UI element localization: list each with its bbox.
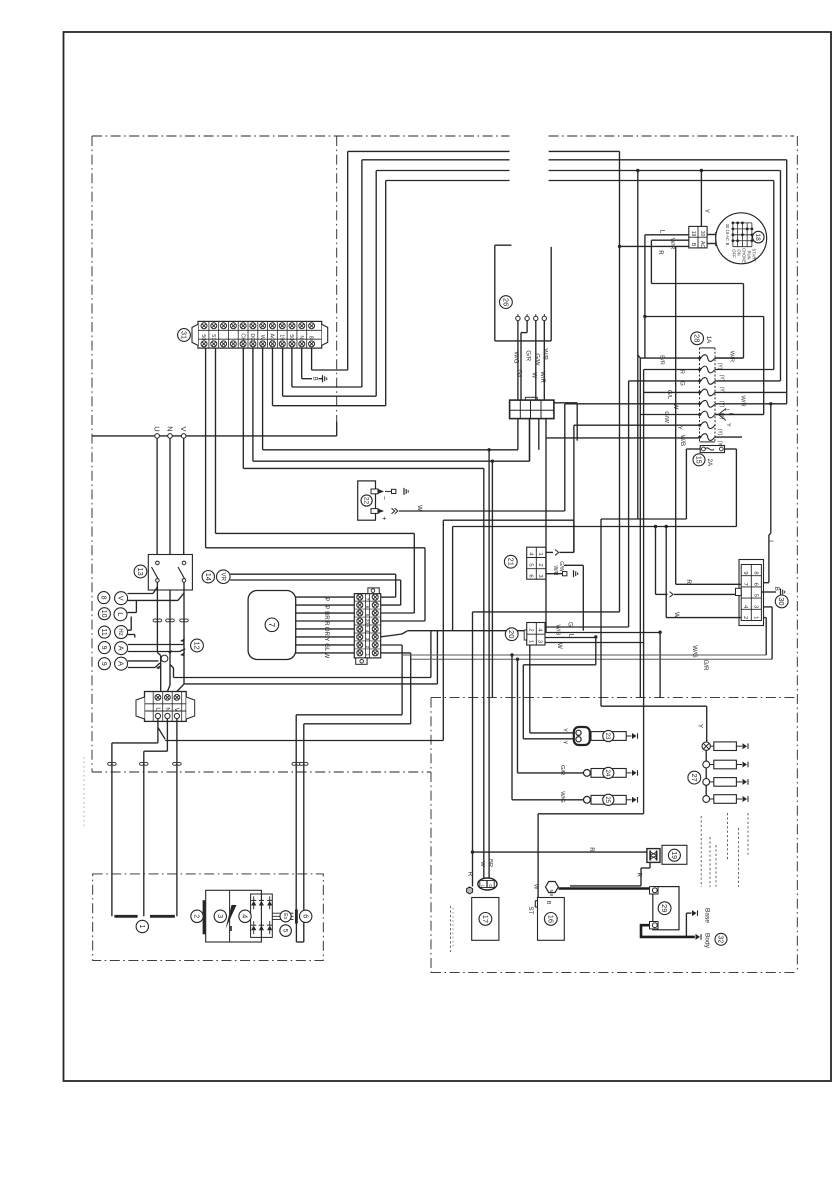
svg-text:3: 3	[752, 605, 758, 608]
svg-text:2: 2	[193, 914, 202, 918]
wire Hz lead	[128, 634, 135, 636]
svg-text:(Y): (Y)	[718, 413, 724, 420]
rectifier 4 box	[251, 894, 273, 937]
wire BR branch down	[488, 450, 490, 878]
svg-text:L: L	[767, 540, 774, 544]
wire 26 W/B	[543, 321, 545, 401]
thick cable 16 to battery	[559, 887, 650, 890]
boundary box A left edge	[91, 136, 93, 772]
svg-text:15: 15	[695, 456, 702, 464]
ground at terminal N of 31	[322, 375, 324, 382]
wire exciter join	[295, 924, 297, 943]
wire R to 19	[473, 851, 647, 853]
wire block col3 stub	[538, 419, 540, 450]
label 5	[280, 925, 292, 937]
svg-text:24: 24	[604, 769, 611, 777]
svg-text:2: 2	[364, 646, 370, 649]
svg-text:W/R: W/R	[539, 371, 545, 383]
svg-text:6: 6	[752, 583, 758, 586]
svg-text:W: W	[416, 505, 423, 511]
svg-text:8: 8	[99, 596, 106, 600]
svg-text:Base: Base	[704, 908, 711, 923]
voltmeter V	[115, 592, 128, 605]
label 30	[775, 595, 788, 608]
boundary box B right edge	[796, 136, 798, 973]
wire col11 ground stub	[301, 348, 303, 379]
svg-text:N: N	[165, 426, 174, 431]
label 7	[265, 618, 279, 632]
wire fuse2 out	[715, 369, 774, 371]
wire pole1 down	[156, 582, 158, 652]
wire Y from bus	[700, 171, 702, 227]
svg-text:U: U	[153, 426, 162, 431]
rectifier diodes	[251, 901, 256, 906]
svg-text:W: W	[323, 652, 330, 658]
inline connector coil B	[300, 762, 304, 765]
bolt 17	[467, 887, 473, 894]
wire fuse15 right	[725, 448, 737, 450]
terminal block U N V	[145, 692, 187, 722]
svg-text:START: START	[752, 249, 757, 263]
connector pair on plus	[392, 508, 395, 514]
box around 3	[206, 890, 262, 942]
ground arrow Body	[696, 934, 701, 940]
svg-text:Hz: Hz	[117, 628, 123, 635]
wire col6 G/R to block	[253, 460, 530, 462]
wire L to fuse6	[645, 316, 764, 318]
svg-text:G: G	[678, 381, 685, 386]
wire block col2 down	[529, 419, 531, 462]
wire block W/R stub	[554, 402, 577, 404]
label 2	[191, 910, 203, 922]
wire AC bus y180	[386, 180, 510, 182]
svg-text:CHOKE: CHOKE	[742, 248, 747, 263]
wire W/G up to 30	[765, 618, 767, 655]
wire meters lower bus B	[184, 683, 437, 685]
wire VR top	[230, 573, 396, 575]
wire L-Hz link	[130, 617, 132, 631]
svg-text:(Y): (Y)	[716, 363, 722, 370]
svg-text:16: 16	[546, 915, 555, 923]
wire fuse left vert A	[639, 358, 641, 697]
svg-text:P: P	[323, 597, 330, 601]
node V	[181, 434, 186, 439]
wire V lead top	[128, 593, 153, 595]
svg-text:L: L	[723, 409, 729, 412]
wire 20 W/B	[545, 632, 660, 634]
wire R vertical	[675, 246, 677, 584]
wire Y to 23b	[522, 665, 524, 739]
connector of 18	[689, 226, 707, 248]
breaker pole 1	[156, 561, 160, 565]
wire V lead bottom	[128, 599, 178, 601]
svg-text:8: 8	[308, 336, 314, 339]
wire coil B down	[303, 724, 305, 942]
node U	[155, 434, 160, 439]
divider in 3	[229, 890, 231, 942]
junction Y	[700, 169, 703, 172]
wire W to 30	[666, 617, 741, 619]
svg-text:BR: BR	[487, 859, 493, 867]
wire fuse6 out split	[715, 414, 719, 416]
svg-text:V: V	[117, 596, 126, 601]
wire fuse4 out	[715, 391, 787, 393]
wire 21-1 riser from y520	[573, 520, 575, 552]
svg-text:2: 2	[528, 628, 534, 631]
svg-text:W: W	[673, 612, 680, 618]
wire x666 down	[665, 527, 667, 618]
inline connector U eng	[108, 762, 112, 765]
hex M8	[546, 882, 559, 893]
wire 31col1 to strip	[206, 547, 425, 549]
wire col12 riser	[347, 151, 349, 370]
svg-text:30: 30	[777, 597, 786, 605]
svg-text:B: B	[725, 243, 730, 246]
svg-text:W/G: W/G	[513, 352, 519, 364]
svg-text:21: 21	[506, 558, 515, 566]
svg-text:6: 6	[364, 606, 370, 609]
relay 19 box	[662, 845, 687, 864]
svg-text:OFF: OFF	[732, 249, 737, 258]
svg-text:ON: ON	[737, 249, 742, 255]
wire col7 W/G to block	[263, 449, 518, 451]
wire A2 lead top	[128, 660, 159, 662]
wire 20 G	[545, 626, 629, 628]
junction G/R	[516, 658, 519, 661]
ammeter A1	[115, 642, 128, 655]
label 18	[753, 231, 765, 243]
wire A1 lead bottom	[128, 651, 180, 653]
wire U tap diagonal	[158, 727, 165, 739]
wire 20 L	[545, 637, 596, 639]
connector 21	[527, 547, 546, 579]
svg-text:AC: AC	[725, 235, 730, 241]
wire W/R bus y151	[348, 150, 510, 152]
junction block T	[510, 400, 554, 419]
label Ex	[280, 911, 291, 922]
svg-text:19: 19	[690, 231, 696, 237]
label 13	[134, 565, 147, 578]
svg-text:Y: Y	[676, 426, 683, 430]
exciter coil 6 bar	[295, 910, 298, 924]
svg-text:(Y): (Y)	[718, 387, 724, 394]
wire N out	[166, 719, 168, 752]
svg-text:19: 19	[670, 851, 677, 859]
junction row4 line	[658, 631, 661, 634]
wire L conn18	[645, 234, 689, 236]
label 26	[500, 296, 513, 309]
svg-text:29: 29	[660, 904, 669, 912]
wire G/R horizontal	[411, 658, 772, 660]
svg-text:A: A	[117, 661, 126, 666]
svg-text:1: 1	[528, 640, 534, 643]
wire conn18 to switch	[707, 234, 716, 236]
ground 30	[780, 589, 782, 596]
svg-text:W/G: W/G	[559, 791, 565, 803]
label 14	[202, 571, 214, 583]
wire plus W	[399, 510, 565, 512]
terminal 22 plus	[371, 509, 378, 514]
wire col5 to oval W	[243, 467, 483, 469]
label 6	[300, 910, 312, 922]
svg-text:7: 7	[267, 623, 276, 628]
wire coil A down	[295, 715, 297, 910]
receptacle 23	[574, 727, 590, 745]
connector 20	[527, 623, 545, 646]
svg-text:1: 1	[364, 654, 370, 657]
wire fuse3 out	[715, 380, 781, 382]
CT A2	[161, 655, 168, 662]
svg-text:R: R	[323, 621, 330, 626]
wire R main vertical	[619, 151, 621, 612]
boundary box C top edge	[431, 697, 797, 699]
svg-text:B/R: B/R	[659, 355, 665, 365]
label 29	[658, 902, 671, 915]
svg-text:7: 7	[364, 598, 370, 601]
svg-text:G: G	[488, 884, 493, 888]
svg-text:9: 9	[742, 571, 748, 574]
inline connector N eng	[140, 762, 144, 765]
wire W/R conn18	[651, 239, 688, 241]
wire R to 17	[472, 852, 474, 886]
wire W/G horizontal	[402, 654, 766, 656]
wire 21-3 gnd	[546, 573, 562, 575]
wire 31-col6 down	[252, 348, 254, 461]
inline connector U	[153, 619, 157, 622]
wire W/G to 25	[511, 655, 513, 800]
svg-text:10: 10	[100, 610, 107, 618]
svg-text:32: 32	[717, 935, 724, 943]
label 1	[136, 920, 148, 932]
svg-text:ST: ST	[527, 906, 534, 914]
svg-text:W: W	[479, 861, 485, 867]
svg-text:G/R: G/R	[559, 765, 565, 775]
svg-text:3: 3	[537, 574, 543, 577]
wire G/R to 24	[517, 659, 519, 773]
battery top terminal	[650, 887, 659, 894]
junction R bottom	[471, 850, 474, 853]
wire meters lower bus A	[174, 677, 431, 679]
svg-text:Y: Y	[725, 423, 731, 427]
motor 17 box	[472, 898, 499, 941]
svg-text:L: L	[568, 633, 575, 637]
svg-text:L: L	[658, 230, 665, 234]
svg-text:23: 23	[604, 732, 611, 740]
svg-text:B: B	[311, 377, 317, 381]
wire col9 riser	[375, 171, 377, 397]
VR label circle	[217, 570, 231, 584]
ammeter A2	[115, 657, 128, 670]
wire 21-1 hook	[546, 551, 553, 553]
battery bottom terminal	[650, 922, 659, 929]
svg-text:G/W: G/W	[558, 561, 564, 571]
svg-text:P: P	[323, 605, 330, 609]
pilot lamps 27	[702, 742, 710, 750]
svg-text:Y: Y	[323, 637, 330, 641]
wire UNV bus	[92, 435, 337, 437]
svg-text:RUN: RUN	[747, 250, 752, 259]
wire fuse feeder	[637, 171, 639, 520]
wire 26 G/R jog	[526, 321, 528, 333]
svg-text:6: 6	[528, 574, 534, 577]
svg-text:8: 8	[752, 571, 758, 574]
wire U out	[157, 719, 159, 728]
svg-text:Y: Y	[562, 728, 568, 732]
legend text columns	[700, 816, 702, 887]
svg-text:A: A	[117, 646, 126, 651]
label 11	[98, 626, 110, 638]
svg-text:12: 12	[192, 641, 201, 649]
wire col8 riser	[385, 181, 387, 406]
svg-text:31: 31	[179, 331, 188, 339]
relay conn 19	[647, 849, 660, 863]
wire U long to 443	[165, 740, 443, 742]
scan noise ticks	[83, 757, 85, 827]
svg-text:+: +	[380, 516, 389, 521]
breaker pole 2	[182, 561, 186, 565]
svg-text:5: 5	[752, 594, 758, 597]
wire VR bottom	[230, 579, 401, 581]
wire fuse1 out	[715, 357, 744, 359]
wire strip row4 diag	[381, 634, 402, 637]
label 3	[214, 910, 226, 922]
wire 21-1 to fuse7	[573, 425, 575, 552]
battery 29 box	[653, 887, 679, 930]
wire branch 660 down	[659, 632, 661, 697]
wire fuse15 left	[686, 448, 700, 450]
svg-text:3: 3	[216, 914, 225, 918]
svg-text:Y: Y	[562, 741, 568, 745]
fuse 15 body	[700, 446, 724, 453]
svg-text:GL: GL	[323, 643, 330, 652]
svg-text:17: 17	[481, 915, 490, 923]
wire L down	[595, 638, 597, 665]
charger 22 box	[358, 481, 376, 520]
svg-text:L: L	[116, 612, 125, 616]
svg-text:Y: Y	[697, 724, 704, 728]
junction R 18	[618, 245, 621, 248]
svg-text:4: 4	[241, 914, 250, 918]
junction fuse5	[769, 402, 772, 405]
svg-text:30: 30	[699, 231, 705, 237]
CT marks on V wire	[180, 638, 185, 642]
label 31	[178, 329, 191, 342]
wire V down	[183, 438, 185, 563]
svg-text:28: 28	[693, 334, 702, 342]
svg-text:20A: 20A	[364, 619, 370, 628]
label 17	[479, 913, 492, 926]
wire 20 W	[545, 642, 644, 644]
svg-text:W: W	[556, 643, 563, 649]
svg-text:1: 1	[138, 925, 147, 929]
svg-text:Ex: Ex	[282, 913, 288, 920]
svg-text:N: N	[298, 335, 304, 339]
freq meter Hz	[115, 626, 128, 639]
svg-text:N: N	[163, 707, 170, 712]
node N	[168, 434, 173, 439]
svg-text:G/W: G/W	[663, 411, 669, 423]
ground of 22	[403, 488, 405, 495]
svg-text:5: 5	[281, 929, 288, 933]
stator coil 1 bar B	[150, 915, 175, 918]
stator coil 1 bar A	[114, 915, 137, 918]
svg-text:20: 20	[507, 630, 516, 638]
wire R to conn18	[620, 245, 689, 247]
breaker 13 box	[148, 555, 192, 591]
junction L	[594, 635, 597, 638]
svg-text:R: R	[466, 872, 473, 877]
AVR unit 7	[248, 591, 296, 660]
svg-text:G/L: G/L	[666, 390, 672, 400]
receptacle 24	[584, 770, 591, 777]
inline connector coil A	[292, 762, 296, 765]
engine boundary box D	[93, 874, 324, 961]
wire branch 492 down	[491, 461, 493, 697]
wire fuse7Y out down	[770, 404, 772, 533]
svg-text:R: R	[588, 847, 595, 852]
wires 7 to strip	[296, 596, 355, 598]
junction W/G	[510, 653, 513, 656]
svg-text:CH: CH	[239, 333, 245, 341]
svg-text:B: B	[773, 587, 780, 591]
svg-text:7: 7	[742, 583, 748, 586]
svg-text:W: W	[530, 372, 536, 378]
svg-text:OR: OR	[323, 627, 330, 637]
svg-text:VR: VR	[219, 573, 225, 582]
wire 26 W/G	[517, 321, 519, 401]
svg-text:1: 1	[752, 616, 758, 619]
inline connector V eng	[173, 762, 177, 765]
svg-text:3: 3	[537, 640, 543, 643]
svg-text:1A: 1A	[705, 336, 712, 344]
wire Y30 down	[655, 527, 657, 595]
svg-text:W/G: W/G	[691, 645, 698, 658]
wire 31-col5 down	[242, 348, 244, 468]
wire 31-col7 down	[262, 348, 264, 450]
svg-text:W/B: W/B	[542, 349, 548, 360]
svg-text:19: 19	[278, 334, 284, 340]
connector 30	[739, 560, 764, 626]
svg-text:W/R: W/R	[669, 238, 675, 249]
svg-text:2A: 2A	[706, 459, 713, 467]
terminal strip of 7	[354, 594, 380, 658]
svg-text:1: 1	[537, 552, 543, 555]
label 28	[691, 332, 704, 345]
svg-text:−: −	[380, 496, 387, 500]
svg-text:DC: DC	[249, 333, 255, 341]
label 15	[693, 454, 705, 466]
ST tab	[535, 900, 537, 902]
svg-text:G: G	[567, 622, 574, 627]
terminals of 26	[516, 316, 520, 320]
svg-text:G/L: G/L	[516, 370, 522, 380]
wire strip row7 from coil	[381, 652, 411, 654]
wire Y to 30	[656, 593, 668, 595]
label 9b	[98, 658, 110, 670]
thyristor 3 mark	[226, 905, 237, 929]
wire G/R up to 30	[771, 607, 773, 659]
svg-text:G/R: G/R	[524, 350, 530, 361]
label 16	[544, 913, 557, 926]
svg-text:5: 5	[528, 563, 534, 566]
junction L net	[643, 315, 646, 318]
wire N down	[169, 438, 171, 664]
svg-text:Body: Body	[704, 933, 711, 949]
wire A2 lead bottom	[128, 667, 155, 669]
wire L net down	[644, 317, 646, 359]
svg-text:Y: Y	[703, 209, 710, 213]
label 22	[361, 495, 372, 506]
